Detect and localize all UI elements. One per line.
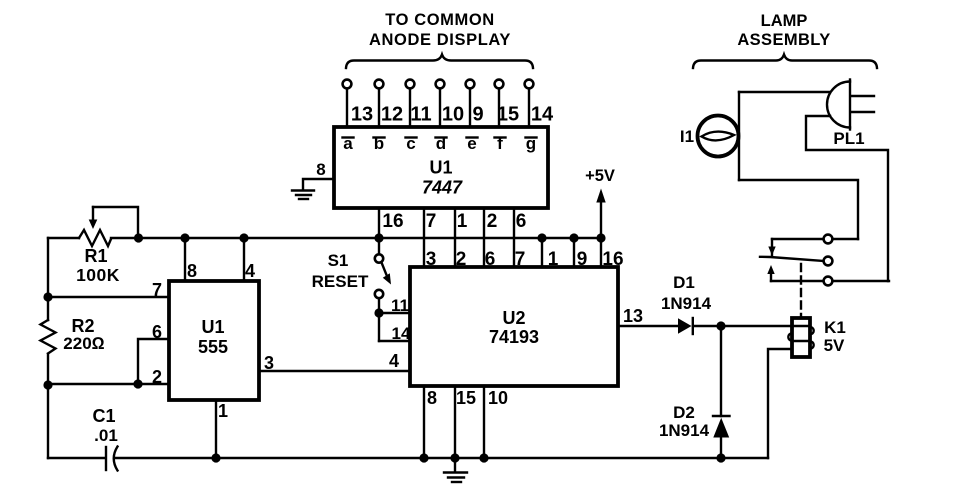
junction: pin 8 on ground rail	[419, 453, 428, 462]
terminal pin 15 (segment f)	[495, 80, 520, 127]
relay contact arrow (down)	[768, 239, 775, 257]
junction: rail corner at +5V	[596, 233, 605, 242]
svg-text:1N914: 1N914	[659, 421, 710, 440]
wire: left vertical bus	[47, 238, 49, 458]
svg-text:+5V: +5V	[585, 167, 615, 185]
svg-text:D1: D1	[673, 273, 695, 292]
svg-text:13: 13	[623, 306, 643, 326]
junction: D1 output node	[716, 321, 725, 330]
brace (lamp assembly group)	[693, 55, 877, 69]
svg-text:4: 4	[389, 351, 399, 371]
svg-text:7: 7	[426, 211, 437, 232]
svg-text:RESET: RESET	[312, 272, 369, 291]
switch S1 RESET	[312, 238, 391, 341]
junction: R2 bottom / pin 2 tap	[43, 380, 52, 389]
wire: dashed actuator link	[800, 264, 802, 318]
svg-text:15: 15	[497, 104, 519, 126]
svg-text:U1: U1	[429, 158, 452, 178]
svg-text:10: 10	[488, 388, 508, 408]
junction: S1 to pins 11/14	[374, 308, 383, 317]
wire: ground rail (bottom)	[48, 457, 768, 459]
svg-text:74193: 74193	[489, 327, 539, 347]
ground (U1 7447 pin 8)	[292, 191, 314, 200]
svg-text:555: 555	[198, 337, 228, 357]
label: TO COMMON ANODE DISPLAY	[369, 11, 511, 49]
wire: U1 pin 6 to U2 pin 7	[514, 208, 526, 270]
wire: 555 pin 3 to U2 pin 4	[259, 351, 410, 373]
pin label g-bar	[526, 134, 537, 153]
pin label e-bar	[467, 134, 478, 153]
svg-text:10: 10	[442, 104, 464, 126]
wire: 555 pin 2	[48, 367, 169, 387]
svg-text:3: 3	[264, 353, 274, 373]
wire: lamp top to plug	[739, 91, 830, 93]
junction: pin 10 on ground rail	[479, 453, 488, 462]
wire: U1 pin 7 to U2 pin 3	[424, 208, 436, 270]
svg-text:S1: S1	[328, 251, 349, 270]
junction: pin 9 on rail	[569, 233, 578, 242]
node +5V arrow	[585, 167, 615, 238]
wire: relay coil return to ground rail	[768, 349, 792, 458]
wire: 555 pin 7	[48, 280, 169, 300]
pin label f-bar	[495, 134, 506, 153]
svg-text:ASSEMBLY: ASSEMBLY	[737, 31, 830, 49]
capacitor C1 .01	[92, 406, 117, 471]
svg-text:U2: U2	[502, 308, 525, 328]
pin label a-bar	[343, 134, 354, 153]
ground (bottom rail)	[444, 458, 467, 482]
svg-text:5V: 5V	[824, 336, 845, 355]
svg-text:12: 12	[381, 104, 403, 126]
terminal pin 13 (segment a)	[343, 80, 374, 127]
svg-text:D2: D2	[673, 403, 695, 422]
svg-text:4: 4	[245, 261, 255, 281]
wire: D1 to relay coil	[694, 325, 792, 327]
terminal pin 12 (segment b)	[375, 80, 404, 127]
junction: R2 top / pin 7 tap	[43, 292, 52, 301]
diode D2 1N914	[659, 403, 730, 440]
wire: node to D2 cathode	[720, 326, 722, 416]
svg-text:9: 9	[577, 249, 588, 270]
SECTION: lamp	[680, 12, 888, 281]
wire: U2 pin 8 to ground rail	[424, 386, 437, 458]
svg-text:14: 14	[392, 324, 411, 343]
wire: 555 pin 8 to rail	[185, 238, 197, 281]
relay contact arrow (up)	[767, 265, 774, 281]
svg-text:PL1: PL1	[833, 129, 864, 148]
svg-text:U1: U1	[201, 317, 224, 337]
junction: pin 15 on ground rail	[450, 453, 459, 462]
svg-text:11: 11	[391, 296, 409, 315]
svg-text:14: 14	[531, 104, 554, 126]
svg-text:8: 8	[427, 388, 437, 408]
SECTION: diodes relay	[618, 235, 889, 463]
wire: U2 pin 14	[379, 324, 411, 343]
resistor R2 220 ohm	[41, 316, 105, 354]
wire: U2 pin 15 to ground rail	[455, 386, 476, 458]
junction: pin 1 on ground rail	[211, 453, 220, 462]
wire: U1 pin 2 to U2 pin 6	[484, 208, 497, 270]
svg-text:.01: .01	[94, 426, 118, 445]
svg-text:7447: 7447	[422, 178, 463, 198]
wire: lamp right vertical	[738, 92, 740, 180]
wire: 555 pin 4 to rail	[244, 238, 255, 281]
junction: pin 6 joins pin 2	[133, 379, 142, 388]
svg-text:R2: R2	[71, 316, 94, 336]
svg-text:ANODE DISPLAY: ANODE DISPLAY	[369, 31, 511, 49]
pin label b-bar	[374, 134, 385, 153]
svg-text:2: 2	[152, 367, 162, 387]
svg-text:8: 8	[316, 160, 325, 179]
wire: U2 pin 13 to D1	[618, 306, 678, 326]
svg-text:11: 11	[410, 104, 431, 126]
wire: 555 pin 1 to ground rail	[216, 400, 228, 458]
IC U1 555 timer	[169, 281, 259, 400]
svg-text:K1: K1	[824, 318, 846, 337]
junction: pin 4 on rail	[239, 233, 248, 242]
svg-text:9: 9	[472, 104, 483, 126]
SECTION: rail	[48, 167, 615, 285]
wire: U2 pin 10 to ground rail	[484, 386, 508, 458]
wire: U2 pin 9 to rail	[574, 238, 587, 270]
relay contact: NC terminal (top)	[772, 235, 858, 244]
terminal pin 10 (segment d)	[436, 80, 465, 127]
SECTION: display header	[343, 11, 554, 127]
terminal pin 11 (segment c)	[406, 80, 432, 127]
terminal pin 14 (segment g)	[525, 80, 554, 127]
diode D1 1N914	[661, 273, 712, 334]
svg-text:C1: C1	[92, 406, 115, 426]
SECTION: left timer	[41, 233, 769, 470]
svg-text:1N914: 1N914	[661, 294, 712, 313]
relay armature (common pole)	[760, 257, 832, 266]
svg-text:16: 16	[602, 249, 623, 270]
svg-text:TO COMMON: TO COMMON	[385, 11, 495, 29]
wire: lamp bottom to NC contact	[739, 180, 858, 239]
wire: U1 7447 pin 16 to +5V rail	[379, 208, 404, 238]
IC U2 74193 counter	[410, 267, 618, 386]
potentiometer R1 100K	[76, 207, 138, 285]
svg-text:1: 1	[548, 249, 559, 270]
plug PL1	[827, 80, 874, 149]
junction: R1 wiper on rail	[134, 233, 143, 242]
lamp I1	[680, 116, 739, 157]
svg-text:I1: I1	[680, 127, 694, 146]
relay coil K1 5V	[788, 318, 846, 357]
wire: U1 7447 pin 8 to ground	[303, 160, 334, 189]
SECTION: U2 74193	[312, 233, 624, 482]
wire: U2 pin 11	[379, 296, 410, 315]
svg-text:15: 15	[456, 388, 476, 408]
brace (display group)	[346, 55, 533, 69]
svg-text:LAMP: LAMP	[761, 12, 808, 30]
SECTION: U1 7447	[292, 127, 548, 270]
pin label c-bar	[406, 134, 417, 153]
terminal pin 9 (segment e)	[466, 80, 484, 127]
wire: D2 anode to ground rail	[720, 437, 722, 458]
wire: 555 pin 6	[138, 322, 169, 384]
wire: U2 pin 16 to rail	[601, 238, 624, 270]
svg-text:16: 16	[382, 211, 403, 232]
svg-text:220Ω: 220Ω	[63, 334, 104, 353]
svg-text:R1: R1	[84, 246, 107, 266]
wire: plug return to NO contact	[806, 116, 888, 281]
IC U1 7447 (BCD to 7-segment decoder)	[334, 127, 548, 208]
wire: +5V supply rail	[48, 237, 601, 239]
svg-text:1: 1	[457, 211, 468, 232]
svg-text:6: 6	[152, 322, 162, 342]
junction: pin 1 on rail	[537, 233, 546, 242]
svg-text:7: 7	[152, 280, 162, 300]
pin label d-bar	[436, 134, 447, 153]
junction: S1 on rail	[374, 233, 383, 242]
svg-text:13: 13	[351, 104, 373, 126]
relay contact: NO terminal (bottom)	[771, 277, 889, 286]
svg-text:8: 8	[187, 261, 197, 281]
wire: U1 pin 1 to U2 pin 2	[455, 208, 468, 270]
label: LAMP ASSEMBLY	[737, 12, 830, 49]
junction: D2 on ground rail	[716, 453, 725, 462]
junction: pin 8 on rail	[180, 233, 189, 242]
svg-text:2: 2	[487, 211, 498, 232]
svg-text:100K: 100K	[76, 265, 120, 285]
svg-text:6: 6	[516, 211, 527, 232]
wire: U2 pin 1 to rail	[542, 238, 559, 270]
svg-text:1: 1	[218, 401, 228, 421]
